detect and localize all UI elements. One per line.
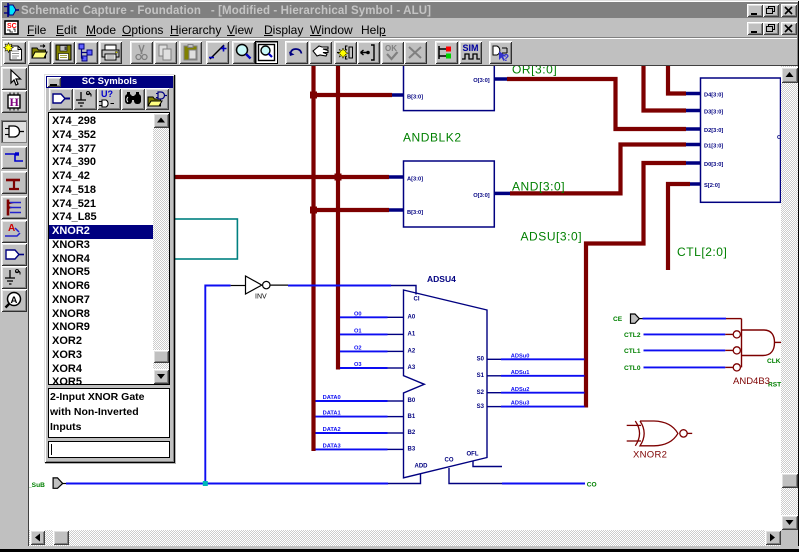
AND4B3 input vertical — [741, 319, 743, 368]
wire _SuB — [66, 483, 388, 485]
svg-text:B3: B3 — [408, 447, 416, 453]
stub S — [690, 182, 701, 186]
svg-text:A: A — [8, 223, 15, 234]
wire CO — [502, 483, 585, 485]
svg-text:CTL[2:0]: CTL[2:0] — [677, 245, 727, 259]
bus top to D3 — [644, 66, 687, 111]
wire ADSu3 — [501, 406, 585, 408]
XNOR2 input stubs — [627, 424, 641, 426]
wire INV out to CI — [288, 285, 391, 287]
bus row A — [169, 175, 389, 179]
lead B1 — [388, 416, 404, 418]
svg-text:_SuB: _SuB — [29, 482, 45, 489]
stub top block B[3:0] — [392, 93, 404, 97]
wire CE — [643, 318, 727, 320]
wire ADSu2 — [501, 392, 585, 394]
lead OFL — [473, 461, 502, 467]
svg-text:D3[3:0]: D3[3:0] — [704, 109, 723, 115]
toolbar row background — [2, 39, 797, 65]
svg-text:S0: S0 — [477, 357, 485, 363]
svg-text:AND4B3: AND4B3 — [733, 376, 770, 387]
svg-text:O0: O0 — [354, 311, 362, 317]
svg-text:DATA1: DATA1 — [323, 411, 341, 417]
inverter INV triangle — [246, 276, 262, 294]
toolbar separator — [2, 37, 797, 38]
junction bus1 x topB — [310, 92, 317, 99]
lead A2 — [388, 350, 404, 352]
AND4B3 CTL2 bubble stub — [725, 333, 733, 335]
stub D2 — [686, 127, 701, 131]
palette title — [46, 76, 173, 88]
left tool column — [0, 66, 28, 546]
svg-text:?: ? — [503, 53, 509, 64]
AND4B3 bubble CTL2 — [733, 331, 740, 338]
ADSU4 pin leads — [388, 286, 503, 484]
menu bar row — [2, 18, 797, 38]
title bar — [2, 2, 797, 18]
wire INV input vertical — [205, 286, 230, 484]
wire DATA2 — [316, 432, 388, 434]
svg-text:SIM: SIM — [463, 43, 479, 53]
canvas top border — [28, 65, 798, 66]
svg-text:ADSu1: ADSu1 — [511, 370, 530, 376]
junction bus1 x rowB — [310, 207, 317, 214]
horizontal scrollbar — [29, 530, 781, 546]
lead B0 — [388, 400, 404, 402]
list box — [48, 112, 170, 385]
svg-text:B1: B1 — [408, 414, 416, 420]
MDI child icon — [4, 20, 20, 36]
svg-text:D2[3:0]: D2[3:0] — [704, 128, 723, 134]
svg-text:OK: OK — [385, 44, 397, 53]
lead A1 — [388, 333, 404, 335]
svg-text:XNOR2: XNOR2 — [633, 449, 667, 460]
lead S3 — [487, 406, 501, 408]
stub ANDBLK2 A[3:0] — [389, 175, 404, 179]
lead S2 — [487, 392, 501, 394]
AND4B3 body — [742, 330, 775, 356]
svg-text:B2: B2 — [408, 430, 416, 436]
bus B1 vertical — [311, 66, 315, 451]
svg-text:CO: CO — [587, 482, 597, 489]
lead A0 — [388, 316, 404, 318]
vertical scrollbar — [781, 66, 798, 530]
svg-text:B[3:0]: B[3:0] — [407, 94, 423, 100]
bus AND out to D1 — [510, 145, 686, 194]
svg-text:O[3:0]: O[3:0] — [473, 78, 490, 84]
terminal _SuB — [53, 478, 63, 488]
white canvas with schematic — [29, 66, 781, 530]
XNOR2 body — [640, 421, 678, 446]
wire O1 — [340, 333, 388, 335]
XNOR2 xor arc — [635, 421, 639, 446]
wire DATA0 — [316, 400, 388, 402]
wire ADSu0 — [501, 358, 585, 360]
AND4B3 CE horiz — [726, 318, 742, 320]
svg-text:A3: A3 — [408, 365, 416, 371]
svg-text:ADSu2: ADSu2 — [511, 387, 530, 393]
wire O2 — [340, 350, 388, 352]
lead S1 — [487, 375, 501, 377]
lead B3 — [388, 448, 404, 450]
bus row B — [312, 208, 390, 212]
svg-text:B0: B0 — [408, 398, 416, 404]
svg-text:DATA0: DATA0 — [323, 395, 341, 401]
svg-text:A: A — [11, 295, 18, 306]
MDI window buttons — [747, 22, 763, 35]
bus OR out to D2 — [507, 79, 686, 129]
svg-text:H: H — [10, 95, 20, 109]
bus ADSU to D0 — [586, 163, 686, 408]
stub D3 — [686, 109, 701, 113]
lead CO — [449, 468, 502, 484]
corner — [781, 530, 798, 546]
bus to top block B pin — [312, 93, 393, 97]
svg-text:S3: S3 — [477, 404, 485, 410]
lead A3 — [388, 367, 404, 369]
svg-text:A[3:0]: A[3:0] — [407, 177, 423, 183]
svg-text:A1: A1 — [408, 332, 416, 338]
svg-text:A0: A0 — [408, 315, 416, 321]
list scrollbar — [153, 113, 169, 384]
wire CTL1 — [644, 349, 726, 351]
svg-text:CTL1: CTL1 — [624, 348, 641, 355]
svg-text:O1: O1 — [354, 329, 362, 335]
svg-text:ADSU4: ADSU4 — [427, 274, 456, 284]
svg-text:A2: A2 — [408, 349, 416, 355]
svg-text:ADD: ADD — [415, 463, 429, 469]
terminal CE — [631, 314, 640, 323]
svg-text:D1[3:0]: D1[3:0] — [704, 143, 723, 149]
lead CI — [391, 286, 416, 295]
svg-text:S2: S2 — [477, 390, 485, 396]
INV bubble — [263, 281, 270, 288]
svg-text:ADSU[3:0]: ADSU[3:0] — [521, 230, 583, 244]
svg-text:D0[3:0]: D0[3:0] — [704, 162, 723, 168]
wire DATA3 — [316, 448, 388, 450]
AND4B3 bubble CTL0 — [733, 364, 740, 371]
svg-text:ANDBLK2: ANDBLK2 — [403, 131, 462, 145]
svg-text:U?: U? — [101, 89, 113, 99]
svg-text:INV: INV — [255, 293, 267, 300]
node teal box — [174, 219, 237, 259]
op ADSU4 outline — [404, 290, 488, 478]
INV input lead — [231, 285, 246, 287]
bus top to D4 — [668, 66, 686, 94]
description box — [48, 388, 170, 438]
wire CTL0 — [644, 366, 726, 368]
AND4B3 output stub — [775, 341, 782, 343]
stub ANDBLK2 O[3:0] — [494, 192, 510, 196]
wire ADSu1 — [501, 375, 585, 377]
AND4B3 CTL0 bubble stub — [725, 366, 733, 368]
block ANDBLK2 — [404, 161, 495, 227]
AND4B3 bubble CTL1 — [733, 347, 740, 354]
stub D1 — [686, 143, 701, 147]
block ORBLK2 (top, clipped) — [404, 54, 495, 111]
bus B2 vertical — [336, 66, 340, 370]
svg-text:DATA2: DATA2 — [323, 427, 341, 433]
wire O3 — [340, 367, 388, 369]
svg-text:CE: CE — [613, 316, 623, 323]
svg-text:D4[3:0]: D4[3:0] — [704, 92, 723, 98]
svg-text:S[2:0]: S[2:0] — [704, 183, 720, 189]
svg-text:OR[3:0]: OR[3:0] — [512, 66, 557, 77]
junction _SuB/INV — [203, 481, 208, 486]
XNOR2 output stub — [687, 432, 692, 434]
wire O0 — [340, 316, 388, 318]
INV output lead — [270, 284, 288, 286]
bottom frame — [0, 546, 799, 549]
lead S0 — [487, 358, 501, 360]
stub ANDBLK2 B[3:0] — [389, 208, 404, 212]
XNOR2 bubble — [680, 430, 687, 437]
wire DATA1 — [316, 416, 388, 418]
lead B2 — [388, 432, 404, 434]
svg-text:S1: S1 — [477, 373, 485, 379]
svg-text:CLK: CLK — [767, 358, 781, 365]
AND4B3 CTL1 bubble stub — [725, 349, 733, 351]
svg-text:ADSu0: ADSu0 — [511, 353, 530, 359]
palette toolbar — [49, 88, 73, 110]
svg-text:B[3:0]: B[3:0] — [407, 210, 423, 216]
svg-text:CO: CO — [445, 458, 454, 464]
svg-text:O3: O3 — [354, 362, 362, 368]
svg-text:AND[3:0]: AND[3:0] — [512, 180, 565, 194]
wire CTL2 — [644, 333, 726, 335]
svg-text:CTL0: CTL0 — [624, 365, 641, 372]
svg-text:ADSu3: ADSu3 — [511, 401, 530, 407]
svg-text:CI: CI — [414, 297, 420, 303]
block M4_1E (right, partly under scrollbar) — [701, 78, 781, 202]
bus CTL to S — [668, 184, 690, 270]
stub D4 — [686, 92, 701, 96]
ADSU4 texts — [408, 274, 485, 469]
stub top block O[3:0] — [494, 77, 507, 81]
junction bus2 x rowA — [335, 174, 342, 181]
svg-text:O2: O2 — [354, 346, 362, 352]
svg-text:CTL2: CTL2 — [624, 332, 641, 339]
svg-text:DATA3: DATA3 — [323, 444, 341, 450]
SC Symbols palette — [44, 74, 175, 463]
edit box — [48, 441, 170, 458]
lead ADD — [388, 474, 421, 484]
svg-text:OFL: OFL — [467, 451, 479, 457]
title buttons — [747, 4, 763, 17]
stub D0 — [686, 161, 701, 165]
svg-text:O[3:0]: O[3:0] — [473, 193, 490, 199]
